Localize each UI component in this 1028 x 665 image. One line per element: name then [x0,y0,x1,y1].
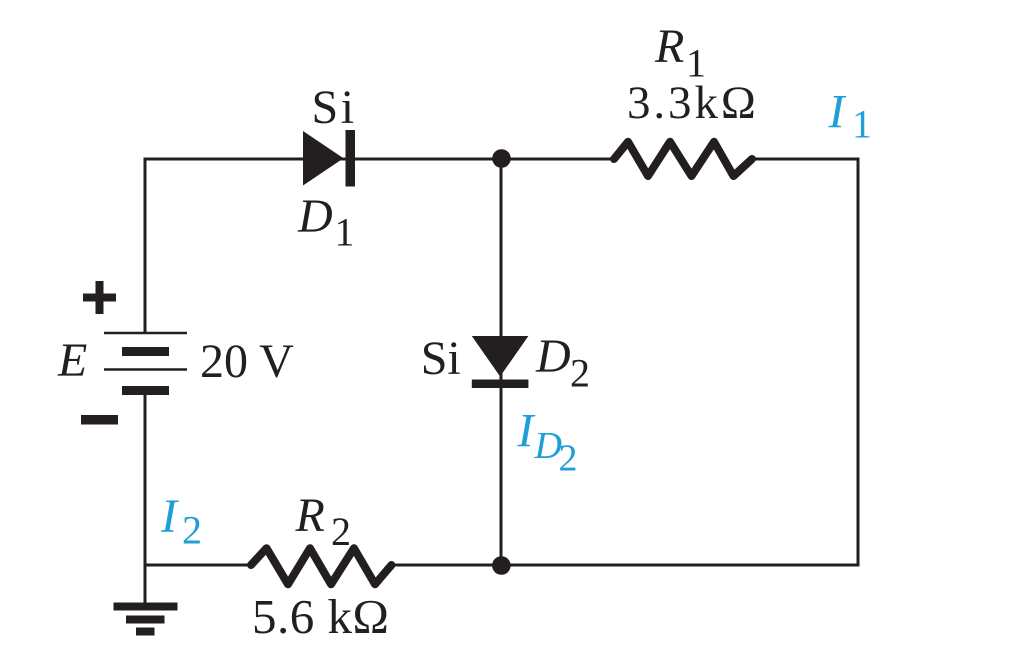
svg-text:I: I [160,490,179,543]
svg-text:D: D [535,330,571,383]
battery E: bottom thick plate [122,386,169,395]
svg-text:2: 2 [182,508,202,553]
svg-text:E: E [57,334,87,387]
svg-text:1: 1 [852,102,872,147]
battery E: upper thick plate [122,347,169,356]
svg-text:2: 2 [570,351,590,396]
wire: bottom-left segment to R2 left end [145,564,251,567]
svg-text:Si: Si [312,81,357,134]
svg-text:R: R [654,20,684,73]
wire: top-left L (left vertical upper + top horizontal to R1) [145,159,614,333]
svg-text:R: R [295,489,325,542]
svg-text:2: 2 [331,509,351,554]
diode D1 triangle (anode, pointing right) [303,131,344,186]
svg-text:3.3kΩ: 3.3kΩ [627,77,759,129]
svg-text:2: 2 [559,438,578,480]
wire: middle vertical branch through D2 [500,159,503,565]
node junction dot bottom [492,556,511,575]
resistor R2 zigzag [251,548,392,584]
battery plus sign [83,281,116,314]
battery E: top long plate [104,332,187,335]
resistor R1 zigzag [614,142,752,176]
svg-text:D: D [297,190,333,243]
svg-text:Si: Si [421,332,461,385]
svg-text:5.6 kΩ: 5.6 kΩ [252,589,389,644]
diode D1 cathode bar [346,130,356,187]
battery minus sign [81,415,118,425]
svg-text:20 V: 20 V [200,335,294,388]
svg-text:I: I [828,86,847,139]
ground symbol [114,603,178,611]
svg-text:I: I [517,405,536,458]
diode D2 cathode bar [472,380,529,389]
wire: top-right corner, right vertical, bottom to R2 right end [392,159,859,565]
svg-text:1: 1 [335,210,355,255]
wire: left vertical lower (battery minus to ground) [144,395,147,604]
node junction dot top [492,149,511,168]
diode D2 triangle (pointing down) [472,336,529,377]
battery E: lower long plate [104,368,187,371]
